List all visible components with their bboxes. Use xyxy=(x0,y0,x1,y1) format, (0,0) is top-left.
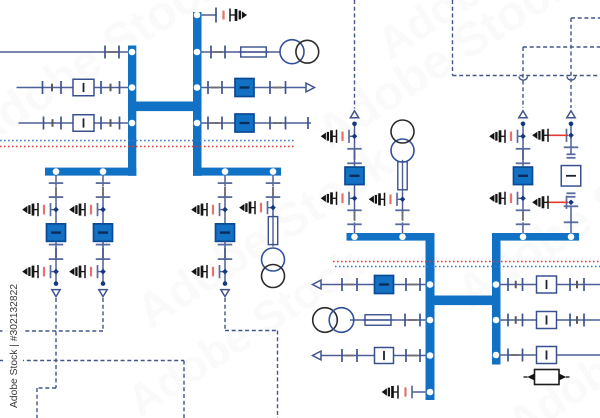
wire dashed FU4 riser xyxy=(570,18,572,108)
disconnector W16b xyxy=(522,349,524,362)
disconnector DS6b xyxy=(221,81,223,94)
earthing switch marker (gray) xyxy=(110,84,112,92)
fuse F1 xyxy=(239,51,269,53)
disconnector FD1.3 xyxy=(49,244,64,246)
wire feeder FU3 stem mid xyxy=(402,192,404,211)
disconnector DS3d xyxy=(119,117,121,130)
earthing switch marker (gray) xyxy=(52,119,54,127)
surge arrester FD1.SA1 xyxy=(51,209,57,211)
wire dashed lower drop xyxy=(183,361,185,418)
disconnector FD3.1 xyxy=(218,182,233,184)
wire W7 gray segment 1 xyxy=(211,122,220,124)
wire FU1 gray segment 2 xyxy=(354,150,356,160)
capacitor FU4.C2 plate b xyxy=(567,153,576,155)
bus tie B1-B2 xyxy=(426,296,501,306)
disconnector DS3b xyxy=(60,117,62,130)
surge arrester FU1.SA2 xyxy=(349,135,355,137)
disconnector FU1.4 xyxy=(347,148,362,150)
earthing switch marker (gray) xyxy=(515,316,517,324)
disconnector DS10d xyxy=(419,278,421,291)
transformer T1 primary winding xyxy=(280,40,304,64)
motor M5 left arrow xyxy=(524,376,528,378)
surge arrester FD3.SA2 xyxy=(220,271,226,273)
earthing switch marker (gray) xyxy=(110,119,112,127)
capacitor FU4.C1 plate b xyxy=(567,192,576,194)
junction FD1.J1 xyxy=(53,207,59,213)
junction FU1.J1 xyxy=(352,195,358,201)
wire feeder FU1 stem mid xyxy=(354,184,356,211)
wire feeder FU2 stem upper xyxy=(522,124,524,167)
wire incoming line W1 xyxy=(0,51,128,53)
disconnector W15c xyxy=(569,314,571,327)
wire feeder line W3 xyxy=(19,122,129,124)
junction FD1.J2 xyxy=(53,269,59,275)
surge arrester FU4.SA2 (red link) xyxy=(566,129,568,142)
disconnector FD3.3 xyxy=(218,244,233,246)
wire W5 gray segment xyxy=(214,51,223,53)
transformer T3 primary winding xyxy=(391,120,414,143)
wire feeder FD1 stem upper xyxy=(55,175,57,187)
surge arrester FU2.SA2 xyxy=(518,135,524,137)
wire dashed horizontal y47 xyxy=(523,46,600,48)
bus A3 (lower-left busbar) xyxy=(45,168,136,176)
red dotted boundary line xyxy=(0,146,296,148)
disconnector DS4 xyxy=(215,8,217,23)
disconnector W14d xyxy=(583,278,585,291)
bus A4 (lower-right busbar) xyxy=(193,168,281,176)
transformer T1 secondary winding xyxy=(296,40,319,63)
bus A2 (right vertical busbar) xyxy=(193,12,202,176)
wire branch W10 xyxy=(321,284,426,286)
junction FU1.J2 xyxy=(352,133,358,139)
wire dashed horizontal bus link xyxy=(0,330,103,332)
junction FU3.J1 xyxy=(400,196,406,202)
wire branch W6 xyxy=(202,87,306,89)
wire feeder FD3 stem lower xyxy=(224,242,226,284)
wire FD1 gray segment xyxy=(55,187,57,197)
disconnector DS2d xyxy=(119,81,121,94)
disconnector FD2.4 xyxy=(96,258,111,260)
disconnector DS2a xyxy=(42,81,44,94)
incoming arrow FU2 xyxy=(519,111,527,118)
bus connection nodes (white) xyxy=(129,49,136,56)
wire W10 gray segment 2 xyxy=(409,284,418,286)
wire branch W16 xyxy=(501,354,600,356)
disconnector W16a xyxy=(507,349,509,362)
disconnector FU2.3 xyxy=(516,162,531,164)
surge arrester FD1.SA2 xyxy=(51,271,57,273)
capacitor FU4.C1 plate a xyxy=(567,196,576,198)
disconnector FD1.1 xyxy=(49,182,64,184)
blue dotted boundary line xyxy=(0,140,296,142)
wire W6 gray segment 1 xyxy=(211,87,220,89)
circuit breaker FD3.CB xyxy=(216,224,235,242)
disconnector DS6d xyxy=(285,81,287,94)
disconnector DS7b xyxy=(221,117,223,130)
disconnector FD1.4 xyxy=(49,258,64,260)
junction FD4.J1 xyxy=(270,205,276,211)
disconnector DS10c xyxy=(405,278,407,291)
wire feeder FU2 stem mid xyxy=(522,184,524,211)
wire W7 gray segment 2 xyxy=(273,122,282,124)
wire feeder FD4 stem upper xyxy=(272,175,274,187)
wire FD3 gray segment xyxy=(224,187,226,197)
wire dashed FD2 drop xyxy=(102,298,104,331)
wire W6 gray segment 2 xyxy=(273,87,282,89)
bus B3 (upper-left busbar) xyxy=(347,233,435,241)
measuring device M2 (box with bar) xyxy=(73,79,94,96)
outgoing arrow FD3 xyxy=(221,290,229,297)
junction FD3.J1 xyxy=(222,207,228,213)
junction FU2.J1 xyxy=(520,195,526,201)
earthing switch marker (gray) xyxy=(576,316,578,324)
disconnector FU4.2 xyxy=(564,205,579,207)
wire feeder FD2 stem lower xyxy=(102,242,104,284)
circuit breaker CB1 xyxy=(235,79,254,97)
wire dashed horizontal y75 xyxy=(453,75,600,77)
wire FD4 gray segment xyxy=(272,187,274,197)
junction FD2.J1 xyxy=(100,207,106,213)
disconnector DS10b xyxy=(356,278,358,291)
wire dashed FD3 drop xyxy=(224,298,226,331)
disconnector FU2.4 xyxy=(516,148,531,150)
junction FU2.J2 xyxy=(520,133,526,139)
wire W12 gray segment xyxy=(345,355,354,357)
wire FU4 stem mid lower xyxy=(570,206,572,223)
disconnector DS1a xyxy=(104,46,106,59)
outgoing arrow node W12 xyxy=(313,351,322,360)
disconnector FU3.1 xyxy=(395,223,410,225)
wire dashed FD3 jog xyxy=(225,330,278,332)
wire dashed FD1 down-left xyxy=(36,388,38,418)
disconnector DS6c xyxy=(269,81,271,94)
node FU4 terminal dot xyxy=(569,122,574,127)
wire feeder FD1 stem lower xyxy=(55,242,57,284)
junction FD2.J2 xyxy=(100,269,106,275)
wire tap W13 xyxy=(412,391,430,393)
bus B1 (left vertical busbar) xyxy=(426,233,435,400)
wire W12 gray segment 2 xyxy=(409,355,418,357)
circuit breaker FD2.CB xyxy=(94,224,113,242)
disconnector FD2.3 xyxy=(96,244,111,246)
wire FU2 gray segment 2 xyxy=(522,150,524,160)
surge arrester FU3.SA1 xyxy=(397,198,403,200)
wire feeder FU1 stem lower xyxy=(354,222,356,234)
wire feeder FU3 stem lower xyxy=(402,222,404,234)
wire FD2 gray segment xyxy=(102,187,104,197)
disconnector FD1.2 xyxy=(49,196,64,198)
measuring device M4 (box with bar) xyxy=(375,348,394,364)
disconnector DS7e xyxy=(307,117,309,129)
circuit breaker CB3 xyxy=(375,276,394,294)
wire feeder FU4 stem upper xyxy=(570,124,572,154)
transformer T2 secondary winding xyxy=(262,265,285,288)
junction FD3.J2 xyxy=(222,269,228,275)
disconnector FU1.1 xyxy=(347,223,362,225)
fuse FU3.F xyxy=(402,160,404,192)
disconnector W15d xyxy=(583,314,585,327)
disconnector FD4.2 xyxy=(266,196,281,198)
wire dashed FD1 jog xyxy=(37,387,56,389)
wire feeder FD1 stem mid xyxy=(55,197,57,225)
surge arrester FU4.SA1 (red link) xyxy=(566,196,568,209)
transformer T3 secondary winding xyxy=(391,139,414,162)
disconnector FU2.2 xyxy=(516,209,531,211)
wire dashed riser at 452 xyxy=(452,0,454,76)
disconnector DS5b xyxy=(224,46,226,59)
surge arrester FD2.SA2 xyxy=(98,271,104,273)
measuring device W15 box xyxy=(537,312,557,329)
disconnector DS6a xyxy=(207,81,209,94)
wire branch W7 xyxy=(202,122,312,124)
disconnector FD2.1 xyxy=(96,182,111,184)
wire branch W11 xyxy=(350,319,426,321)
wire branch W14 xyxy=(501,284,600,286)
wire W1 gray segment xyxy=(107,51,118,53)
motor M5 (box) xyxy=(535,370,560,385)
surge arrester FD2.SA1 xyxy=(98,209,104,211)
wire hop at 523 xyxy=(519,77,528,81)
disconnector DS12c xyxy=(405,349,407,362)
wire feeder line W2 xyxy=(17,87,129,89)
junction FU4.J1 xyxy=(568,199,574,205)
outgoing arrow node xyxy=(306,83,315,92)
incoming arrow FU1 xyxy=(350,111,358,118)
wire W11 gray segment xyxy=(408,319,417,321)
wire FU1 gray segment xyxy=(354,211,356,221)
wire feeder FU4 stem lower xyxy=(570,221,572,234)
surge arrester SA1 xyxy=(229,9,231,22)
disconnector DS5a xyxy=(210,46,212,59)
disconnector W14b xyxy=(522,278,524,291)
wire dashed horizontal y18 xyxy=(571,17,600,19)
disconnector W14c xyxy=(569,278,571,291)
transformer T2 primary winding xyxy=(262,248,285,271)
earthing switch marker (gray) xyxy=(51,84,53,92)
disconnector DS2c xyxy=(100,81,102,94)
earthing switch marker (gray) xyxy=(515,281,517,289)
disconnector FD3.4 xyxy=(218,258,233,260)
disconnector DS12d xyxy=(419,349,421,362)
disconnector FU1.2 xyxy=(347,209,362,211)
wire feeder FD2 stem upper xyxy=(102,175,104,187)
wire branch W4 xyxy=(202,14,217,16)
circuit breaker CB2 xyxy=(235,114,254,132)
bus B2 (right vertical busbar) xyxy=(492,233,501,365)
fuse F2 xyxy=(363,319,393,321)
disconnector DS12a xyxy=(341,349,343,362)
disconnector FU1.3 xyxy=(347,162,362,164)
disconnector FD4.1 xyxy=(266,182,281,184)
outgoing arrow node W10 xyxy=(313,280,322,289)
disconnector DS3c xyxy=(100,117,102,130)
interlock marker (red) xyxy=(222,11,224,20)
wire FD3 gray segment 2 xyxy=(224,248,226,258)
wire W10 gray segment xyxy=(345,284,354,286)
disconnector W14a xyxy=(507,278,509,291)
earthing switch marker (gray) xyxy=(576,281,578,289)
surge arrester FU2.SA1 xyxy=(518,197,524,199)
surge arrester FD4.SA1 xyxy=(268,207,274,209)
junction FU4.J2 xyxy=(568,132,574,138)
disconnector DS7d xyxy=(285,117,287,130)
wire feeder FU1 stem upper xyxy=(354,124,356,167)
motor M5 right arrow xyxy=(559,374,566,381)
wire branch W15 xyxy=(501,319,600,321)
wire W16 gray segment xyxy=(511,354,520,356)
capacitor FU4.C2 plate a xyxy=(567,157,576,159)
disconnector FU4.3 xyxy=(564,146,579,148)
wire branch W12 xyxy=(321,355,426,357)
bus A1 (left vertical busbar) xyxy=(128,46,136,176)
fuse FD4.F xyxy=(272,215,274,247)
wire feeder FD2 stem mid xyxy=(102,197,104,225)
red dotted boundary line 2 xyxy=(333,261,600,263)
svg-text:Adobe Stock | #302132822: Adobe Stock | #302132822 xyxy=(9,284,20,408)
circuit breaker FD1.CB xyxy=(47,224,66,242)
device box FU4 (box with dash) xyxy=(561,166,581,187)
measuring device W16 box xyxy=(537,347,557,364)
disconnector DS1b xyxy=(118,46,120,59)
wire feeder FD3 stem upper xyxy=(224,175,226,187)
disconnector FU3.2 xyxy=(395,209,410,211)
circuit breaker FU1.CB xyxy=(345,167,364,185)
node FU1 terminal dot xyxy=(352,122,357,127)
surge arrester SA2 xyxy=(397,385,399,398)
node FD1 terminal dot xyxy=(54,281,59,286)
circuit breaker FU2.CB xyxy=(514,167,533,185)
wire branch W5 xyxy=(202,51,281,53)
incoming arrow FU4 xyxy=(567,111,575,118)
disconnector FU4.1 xyxy=(564,221,579,223)
wire feeder FD4 stem mid xyxy=(272,197,274,217)
disconnector DS7a xyxy=(207,117,209,130)
disconnector DS3a xyxy=(43,117,45,130)
bus B4 (upper-right busbar) xyxy=(492,233,579,241)
node FU2 terminal dot xyxy=(521,122,526,127)
disconnector DS7c xyxy=(269,117,271,130)
disconnector DS11a xyxy=(404,314,406,327)
wire dashed FU2 riser xyxy=(522,47,524,108)
wire FD2 gray segment 2 xyxy=(102,248,104,258)
disconnector DS10a xyxy=(341,278,343,291)
disconnector W15a xyxy=(507,314,509,327)
disconnector FD3.2 xyxy=(218,196,233,198)
bus tie A1-A2 xyxy=(128,102,202,112)
interlock marker (red) xyxy=(404,387,406,396)
wire hop at 571 xyxy=(567,77,576,81)
wire dashed FD3 down xyxy=(277,331,279,418)
disconnector DS11b xyxy=(419,314,421,327)
node FD3 terminal dot xyxy=(223,281,228,286)
node FD2 terminal dot xyxy=(101,281,106,286)
wire dashed FU1 riser xyxy=(354,0,356,109)
disconnector DS2b xyxy=(60,81,62,94)
wire FU2 gray segment xyxy=(522,211,524,221)
disconnector FD2.2 xyxy=(96,196,111,198)
surge arrester FD3.SA1 xyxy=(220,209,226,211)
wire dashed lower horizontal xyxy=(0,360,184,362)
transformer T4 secondary winding xyxy=(329,308,354,333)
wire FU3 gray segment xyxy=(402,211,404,221)
measuring device W14 box xyxy=(537,276,557,293)
disconnector FU2.1 xyxy=(516,223,531,225)
blue dotted boundary line 2 xyxy=(335,266,600,268)
disconnector W15b xyxy=(522,314,524,327)
wire dashed FD1 drop xyxy=(55,298,57,388)
disconnector DS13 xyxy=(411,386,413,399)
outgoing arrow FD1 xyxy=(52,290,60,297)
measuring device M3 (box with bar) xyxy=(73,115,94,132)
outgoing arrow FD2 xyxy=(99,290,107,297)
wire feeder FD3 stem mid xyxy=(224,197,226,225)
disconnector DS12b xyxy=(356,349,358,362)
transformer T4 primary winding xyxy=(313,308,338,333)
surge arrester FU1.SA1 xyxy=(349,197,355,199)
wire feeder FU2 stem lower xyxy=(522,222,524,234)
wire FD1 gray segment 2 xyxy=(55,248,57,258)
